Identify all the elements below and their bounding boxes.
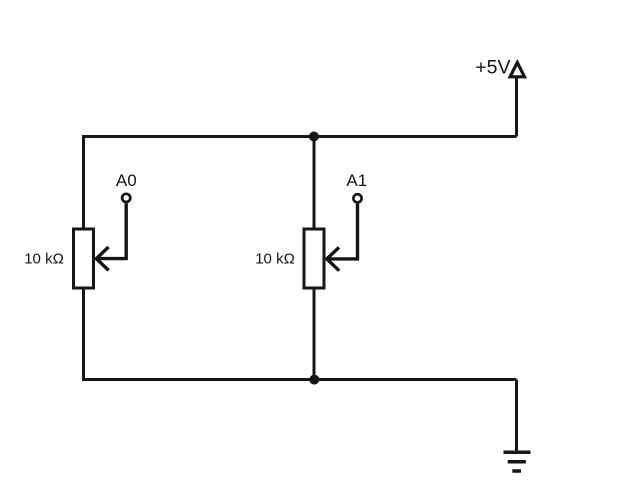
wire left column lower bbox=[82, 288, 85, 381]
svg-text:A0: A0 bbox=[116, 171, 137, 190]
potentiometer R1 wiper arrow bbox=[96, 203, 126, 269]
node junction top bbox=[309, 132, 319, 142]
svg-text:+5V: +5V bbox=[475, 57, 510, 79]
ground bbox=[504, 452, 531, 471]
node junction bottom bbox=[309, 375, 319, 385]
terminal A1 pin circle bbox=[353, 194, 361, 202]
wire middle column lower bbox=[313, 288, 316, 381]
svg-text:A1: A1 bbox=[346, 171, 367, 190]
wire right column to supply bbox=[515, 76, 518, 137]
potentiometer R2 wiper arrow bbox=[327, 204, 358, 270]
supply +5V bbox=[475, 57, 524, 79]
svg-text:10 kΩ: 10 kΩ bbox=[255, 251, 295, 268]
wire top bus bbox=[84, 135, 517, 138]
wire middle column upper bbox=[313, 137, 316, 230]
potentiometer R2 10 kΩ body bbox=[304, 229, 324, 288]
wire right column to ground bbox=[515, 380, 518, 453]
wire bottom bus bbox=[84, 378, 517, 381]
potentiometer R1 10 kΩ body bbox=[74, 229, 94, 288]
svg-text:10 kΩ: 10 kΩ bbox=[24, 251, 64, 268]
wire left column upper bbox=[82, 135, 85, 229]
terminal A0 pin circle bbox=[122, 194, 130, 202]
